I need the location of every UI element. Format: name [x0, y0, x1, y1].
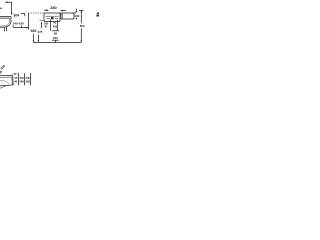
svg-text:345: 345	[26, 76, 31, 80]
svg-text:35: 35	[14, 76, 17, 80]
dim 165 vline with up arrow	[41, 23, 43, 28]
svg-text:40: 40	[14, 80, 17, 84]
svg-text:365: 365	[26, 80, 31, 84]
dim leader top-left horizontal+vertical	[6, 2, 11, 13]
heights 640/675 vlines with floor arrows	[33, 34, 38, 42]
svg-text:675: 675	[38, 30, 43, 34]
svg-text:260: 260	[19, 80, 24, 84]
side view basin rim top	[0, 16, 11, 18]
svg-text:280: 280	[50, 5, 57, 10]
leader after 304: hline and down hook	[21, 14, 25, 17]
front view body	[44, 13, 60, 22]
bracket 80-200 bottom line	[52, 39, 59, 41]
leader vline under 420	[21, 25, 23, 27]
front view drain	[51, 17, 54, 19]
3D view inner right edge	[11, 77, 13, 84]
svg-text:200: 200	[53, 25, 58, 29]
svg-text:200: 200	[53, 36, 58, 40]
3D view rim inner	[0, 76, 12, 78]
svg-text:130: 130	[74, 14, 79, 18]
svg-text:240 420: 240 420	[13, 21, 24, 25]
3D dim vlines	[18, 73, 30, 85]
svg-text:240: 240	[19, 76, 24, 80]
tick at left edge	[0, 7, 2, 9]
dim 850 vline upper	[80, 11, 82, 24]
side view rim inner line	[0, 17, 10, 19]
dim tick hline left of front view bottom	[39, 20, 44, 22]
mark right edge lower	[96, 15, 99, 17]
dim 280 left arrow	[44, 9, 47, 11]
3D view inner bowl hint	[0, 80, 10, 84]
3D dim arrow leader	[14, 73, 17, 75]
dim 130 lower arrow	[75, 18, 77, 19]
mark right edge upper	[97, 13, 99, 15]
center vline bracket to floor	[54, 40, 56, 42]
side view (right) body	[61, 13, 74, 19]
dim 850 arrows	[81, 40, 82, 42]
svg-text:850: 850	[80, 24, 85, 28]
wall line dashed left part	[28, 12, 44, 14]
front view inner bottom dashes	[47, 18, 58, 20]
floor line	[33, 42, 81, 44]
3D view bottom edge	[0, 85, 13, 86]
svg-text:640: 640	[31, 29, 37, 33]
side view drain pipe	[5, 27, 7, 31]
dim hline y=27.6 with right arrow	[13, 27, 28, 29]
bracket 80-200 top line	[52, 30, 59, 32]
3D view right edge	[12, 75, 15, 85]
3D view bottom-left diagonal	[0, 86, 6, 88]
dim 850 vline lower	[80, 28, 82, 42]
front view inner rim line	[46, 15, 59, 17]
arrowhead down on vline x=11.6	[11, 13, 13, 15]
svg-text:304: 304	[14, 14, 20, 18]
wall extension vline x=28.4 with down arrow	[27, 13, 29, 29]
leader vline under 240	[12, 25, 14, 27]
dim 850 top tick	[79, 10, 84, 12]
side view bowl contour	[0, 17, 11, 28]
dim 130 upper segment/arrow	[75, 9, 77, 13]
dim column vlines below front view	[51, 20, 58, 31]
arrowhead left of leader	[5, 1, 7, 3]
3D view rim top outer	[0, 74, 13, 77]
leader above side view with left arrow	[62, 9, 66, 11]
wall line solid part	[44, 12, 76, 14]
side view inner bowl contour	[0, 18, 10, 26]
side view inner wall line	[61, 13, 63, 19]
